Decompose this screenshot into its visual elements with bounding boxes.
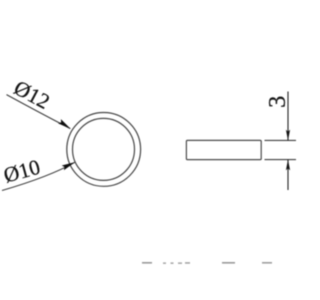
dimension line lower tail [287, 160, 289, 190]
svg-text:3: 3 [264, 96, 291, 108]
arrowhead of Ø12 leader [58, 119, 71, 129]
inner circle (front view, Ø10) [73, 118, 135, 180]
upper arrowhead pointing down [286, 130, 290, 141]
side view rectangle [186, 140, 261, 159]
arrowhead of Ø10 leader [62, 162, 75, 170]
dimension line upper tail [287, 92, 289, 141]
faint cropped text dashes at bottom [142, 262, 152, 264]
lower arrowhead pointing up [286, 160, 290, 171]
bottom extension line [265, 159, 297, 161]
top extension line [265, 139, 297, 141]
leader line for Ø10 [2, 162, 75, 190]
outer circle (front view, Ø12) [67, 112, 141, 186]
leader line for Ø12 [7, 95, 71, 129]
